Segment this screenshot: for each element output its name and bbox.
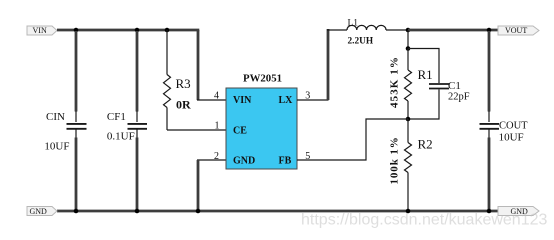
node: GND/COUT junction — [487, 209, 492, 214]
node: VOUT/COUT junction — [487, 28, 492, 33]
wire: GND feed down from pin 2 — [197, 160, 200, 211]
node: GND/R2 junction — [406, 209, 411, 214]
svg-text:https://blog.csdn.net/kuakewen: https://blog.csdn.net/kuakewen123 — [301, 212, 547, 229]
inductor L1 — [327, 18, 409, 46]
svg-text:5: 5 — [305, 151, 310, 162]
svg-text:VIN: VIN — [233, 95, 252, 106]
svg-text:R1: R1 — [418, 67, 433, 82]
wire: VOUT rail — [408, 29, 500, 32]
capacitor COUT — [480, 31, 529, 210]
svg-text:LX: LX — [279, 95, 294, 106]
wire: pin 2 (GND) stub — [197, 159, 226, 161]
net label GND (left) — [27, 207, 57, 216]
node: L1/R1 junction — [406, 28, 411, 33]
svg-text:2.2UH: 2.2UH — [348, 36, 374, 46]
svg-text:CE: CE — [233, 125, 247, 136]
svg-text:10UF: 10UF — [499, 131, 524, 143]
node: VIN/R3 junction — [165, 28, 170, 33]
svg-text:CIN: CIN — [46, 111, 65, 123]
IC U1 PW2051 — [226, 72, 297, 169]
wire: R1 top lead — [407, 30, 409, 49]
wire: VIN feed down to pin 4 — [197, 30, 200, 100]
svg-text:22pF: 22pF — [448, 92, 470, 103]
svg-text:R2: R2 — [418, 136, 433, 151]
svg-text:FB: FB — [279, 155, 292, 166]
svg-text:GND: GND — [233, 155, 255, 166]
svg-text:453K 1%: 453K 1% — [389, 56, 401, 108]
svg-text:1: 1 — [215, 121, 220, 132]
svg-text:GND: GND — [30, 207, 48, 216]
node: GND/pin2 junction — [196, 209, 201, 214]
wire: GND bottom rail — [57, 210, 500, 213]
svg-text:2: 2 — [214, 151, 219, 162]
node: VIN/CIN junction — [74, 28, 79, 33]
net label GND (right) — [498, 207, 539, 216]
svg-text:C1: C1 — [448, 80, 461, 92]
svg-text:0.1UF: 0.1UF — [107, 131, 135, 143]
svg-text:L1: L1 — [348, 18, 359, 28]
capacitor CIN — [44, 31, 86, 210]
node: GND/CF1 junction — [135, 209, 140, 214]
resistor R2 — [389, 119, 433, 211]
wire: LX riser to L1 — [327, 29, 330, 100]
svg-text:CF1: CF1 — [107, 111, 126, 123]
node: GND/CIN junction — [74, 209, 79, 214]
svg-text:3: 3 — [305, 91, 310, 102]
resistor R1 — [389, 49, 433, 120]
wire: pin 3 (LX) stub — [297, 99, 329, 101]
svg-text:VOUT: VOUT — [505, 26, 527, 35]
svg-text:PW2051: PW2051 — [243, 72, 282, 84]
svg-text:10UF: 10UF — [44, 141, 69, 153]
svg-text:VIN: VIN — [33, 26, 47, 35]
node: R1/C1 top junction — [406, 46, 411, 51]
wire: pin 5 (FB) net — [297, 119, 408, 160]
node: FB/R1/R2/C1 junction — [406, 117, 411, 122]
wire: pin 1 (CE) stub — [167, 129, 226, 131]
capacitor CF1 — [107, 31, 147, 210]
svg-text:COUT: COUT — [499, 121, 528, 132]
wire: VIN top rail — [57, 29, 199, 32]
wire: pin 4 stub — [197, 99, 226, 101]
node: VIN/CF1 junction — [135, 28, 140, 33]
net label VOUT — [498, 26, 539, 35]
net label VIN — [27, 26, 57, 35]
svg-text:0R: 0R — [176, 98, 191, 112]
svg-text:4: 4 — [214, 91, 219, 102]
svg-text:R3: R3 — [176, 76, 191, 91]
resistor R3 — [164, 30, 192, 130]
svg-text:100k 1%: 100k 1% — [389, 136, 401, 184]
capacitor C1 — [408, 49, 470, 120]
